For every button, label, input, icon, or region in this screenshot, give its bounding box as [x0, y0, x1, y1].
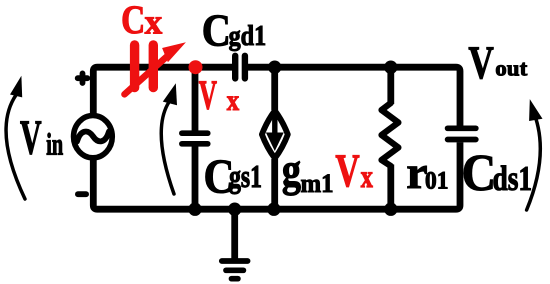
resistor r01 zigzag [382, 103, 399, 166]
svg-text:01: 01 [425, 167, 448, 195]
junction dot bottom r01 [384, 203, 397, 216]
svg-text:V: V [199, 74, 218, 119]
svg-text:in: in [46, 127, 63, 161]
capacitor Cds1 plate 2 [448, 137, 476, 143]
capacitor Cgd1 plate 1 [232, 56, 238, 79]
wire top rail right of Cgd1 [248, 67, 460, 126]
svg-text:gd1: gd1 [229, 19, 267, 51]
capacitor Cgs1 plate 2 [182, 141, 208, 147]
curved arrow Vx (middle) [161, 102, 174, 194]
arrow inside diamond [272, 113, 277, 135]
svg-text:x: x [227, 83, 240, 117]
curved arrow Vin [6, 95, 25, 199]
wire ground stem [231, 209, 238, 260]
capacitor Cgd1 plate 2 [242, 56, 248, 79]
wire gm1 branch lower [271, 159, 278, 209]
junction dot bottom ground [228, 203, 241, 216]
svg-text:gs1: gs1 [229, 160, 262, 195]
junction dot bottom Cgs1 [188, 203, 201, 216]
capacitor Cgs1 plate 1 [182, 130, 208, 136]
svg-text:C: C [121, 0, 145, 42]
ground bar 1 [222, 258, 248, 264]
svg-text:ds1: ds1 [493, 159, 533, 198]
wire top rail with left and right rails [93, 67, 232, 114]
junction dot top gm1 [268, 60, 281, 73]
svg-text:V: V [20, 110, 42, 164]
dependent source gm1 diamond [262, 111, 288, 159]
svg-text:m1: m1 [301, 168, 334, 198]
svg-text:x: x [361, 160, 374, 195]
capacitor Cx red variable, plate 2 [149, 45, 158, 88]
wire r01 branch upper [387, 67, 394, 104]
svg-text:V: V [335, 145, 359, 197]
source Vin circle [74, 115, 113, 157]
node Vx red dot [189, 60, 203, 74]
wire Cgs1 branch lower [192, 146, 199, 209]
minus sign [78, 191, 86, 197]
plus sign [78, 73, 88, 83]
capacitor Cds1 plate 1 [448, 125, 476, 131]
capacitor Cx red variable, plate 1 [130, 45, 139, 88]
svg-text:r: r [406, 148, 427, 199]
wire r01 branch lower [387, 165, 394, 210]
svg-text:V: V [468, 36, 494, 88]
ground bar 3 [232, 276, 238, 282]
junction dot top r01 [384, 60, 397, 73]
svg-text:x: x [145, 3, 163, 42]
wire Cgs1 branch upper [192, 67, 199, 131]
svg-text:C: C [202, 5, 231, 56]
red arrow through Cx [125, 56, 169, 95]
svg-text:g: g [282, 145, 301, 196]
wire gm1 branch upper [271, 67, 278, 110]
junction dot bottom gm1 [267, 203, 280, 216]
ground bar 2 [226, 267, 243, 273]
wire bottom rail with left and right rails [93, 142, 460, 209]
svg-text:C: C [462, 143, 497, 201]
curved arrow Vout (right) [527, 119, 541, 210]
svg-text:out: out [495, 56, 527, 81]
sine wave inside Vin [77, 132, 109, 142]
